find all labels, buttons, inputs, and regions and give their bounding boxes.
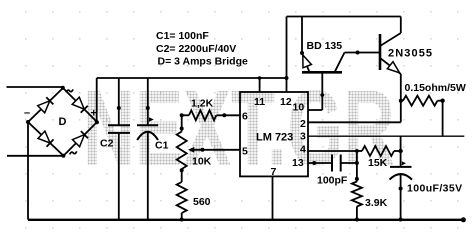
svg-text:D: D [59,116,67,128]
wire pin 7 to ground [272,176,274,219]
node pin4 column at 100pF [355,161,359,165]
wire node down to 3.9K [356,151,358,182]
capacitor C1 [137,117,158,140]
node pot bottom [180,168,184,172]
wire bridge plus vertical [96,78,98,122]
wire pin 3 output line [308,135,464,137]
resistor 0.15ohm/5W [401,96,443,106]
diode D bridge top-right [72,97,88,113]
resistor 560 [177,182,187,213]
wire pin 13 stub [308,162,332,164]
wire pin 12 to top rail [286,17,288,93]
svg-text:D= 3 Amps Bridge: D= 3 Amps Bridge [158,56,249,68]
wire pin 10 stub [308,109,322,111]
resistor 3.9K [352,182,362,207]
label ~ top [66,89,73,92]
wire 560 to ground [181,213,183,220]
wire BD135 base lead [321,72,323,110]
wire pin 11 to rail [259,78,261,92]
wire output down to 100uF [400,136,402,167]
node pin 13 [312,161,316,165]
wire AC input top [7,86,63,88]
node ground rail end dot [461,217,466,222]
svg-text:2N3055: 2N3055 [388,48,433,60]
node on BD135 base lead [320,93,324,97]
potentiometer 10K [177,132,240,170]
node bridge top vertex [61,86,65,90]
wire C1 bottom lead [147,133,149,220]
wire ground left vertical [27,122,29,220]
svg-text:0.15ohm/5W: 0.15ohm/5W [405,82,466,94]
wire 3.9K to ground [356,207,358,220]
node pin4 corner [355,149,359,153]
bridge rectifier D frame [28,88,97,156]
node on base wire [356,51,360,55]
wire BD135 collector to 2N3055 base [345,52,381,54]
IC U1 LM723 box [240,92,308,176]
node pin4 column above 3.9K [355,177,359,181]
resistor 15K [357,146,401,156]
wire AC input bottom [7,155,64,157]
wire pot to 560 [181,169,183,182]
svg-text:–: – [24,107,30,119]
transistor Q2 2N3055 [380,33,401,74]
node on 100uF lower lead [399,187,403,191]
svg-text:C1= 100nF: C1= 100nF [156,30,209,42]
wire C2 top lead [118,78,120,125]
node rail78 meets pin11 [258,76,262,80]
wire 100pF to node [341,162,357,164]
wire pin 4 to node [308,150,357,152]
wire ground bottom rail [28,219,465,221]
wire 1.2K to pot [181,115,183,131]
node emitter resistor tap [399,99,403,103]
diode D bridge bottom-right [73,131,89,147]
wire positive rail y78 [97,77,287,79]
node bridge left vertex [26,120,30,124]
node 100uF ground [399,218,403,222]
svg-text:3.9K: 3.9K [365,197,388,209]
node R1.2K right [222,113,226,117]
node pot wiper wire [201,148,205,152]
wire C2 bottom lead [118,133,120,220]
svg-text:100uF/35V: 100uF/35V [407,182,463,194]
capacitor 100pF [332,155,341,172]
label ~ bottom [70,151,77,154]
capacitor C2 [108,125,130,133]
wire 2N3055 emitter down [400,74,402,122]
diode D bridge bottom-left [38,131,54,147]
node above pot [180,127,184,131]
wire 100uF to ground [400,175,402,220]
capacitor 100uF/35V [390,161,413,179]
resistor R 1,2K [182,110,240,120]
svg-text:BD 135: BD 135 [307,40,343,52]
transistor Q1 BD135 [302,53,345,73]
wire C1 top lead [147,78,149,125]
svg-text:NEXT.GR: NEXT.GR [83,67,395,188]
node 560 ground [180,218,184,222]
wire pin 2 line [308,121,401,123]
node R1.2K left [180,113,184,117]
node bridge bottom vertex [61,154,65,158]
wire top rail y16 [287,16,401,18]
diode D bridge top-left [38,97,54,113]
node 3.9K ground [355,218,359,222]
svg-text:560: 560 [193,196,211,208]
node on C2 lead [117,106,121,110]
node 15K right [398,149,402,153]
wire 2N3055 collector to rail [400,17,402,34]
wire BD135 emitter vertical [301,17,303,54]
node on C1 lead [146,106,150,110]
wire 0.15 right down to output [442,101,444,137]
node 0.15 right [440,99,444,103]
node bridge right vertex [95,120,99,124]
node BD135 emitter [300,51,304,55]
svg-text:C2= 2200uF/40V: C2= 2200uF/40V [156,43,236,55]
node rail78 meets pin12 [285,76,289,80]
